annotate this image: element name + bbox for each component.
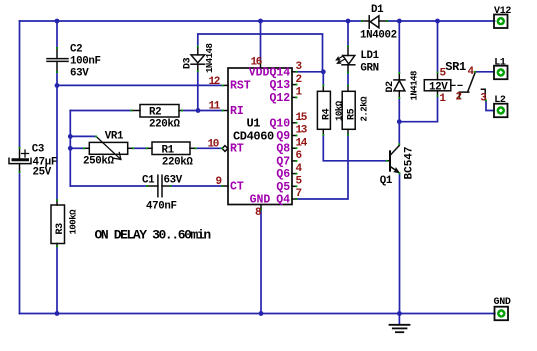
svg-text:Q13: Q13 [270, 79, 291, 92]
svg-text:ON DELAY 30..60min: ON DELAY 30..60min [95, 228, 212, 243]
svg-text:250kΩ: 250kΩ [83, 156, 115, 168]
svg-text:2: 2 [296, 74, 302, 86]
svg-text:L1: L1 [494, 58, 506, 69]
svg-text:U1: U1 [247, 117, 261, 131]
svg-text:C2: C2 [70, 43, 82, 55]
svg-text:Q8: Q8 [276, 143, 290, 156]
svg-text:9: 9 [216, 176, 222, 188]
svg-text:2: 2 [456, 92, 462, 104]
svg-text:Q1: Q1 [380, 175, 393, 187]
svg-text:CD4060: CD4060 [233, 130, 274, 144]
svg-text:470nF: 470nF [146, 201, 177, 213]
svg-text:Q12: Q12 [270, 92, 291, 105]
svg-text:R2: R2 [149, 107, 161, 119]
svg-text:63V: 63V [70, 68, 89, 80]
svg-text:R3: R3 [55, 223, 66, 235]
svg-text:V12: V12 [494, 6, 511, 17]
svg-text:7: 7 [296, 188, 302, 200]
svg-text:25V: 25V [33, 167, 52, 179]
svg-text:VR1: VR1 [105, 131, 124, 143]
svg-text:1N4148: 1N4148 [205, 43, 215, 73]
svg-text:13: 13 [296, 125, 308, 137]
svg-text:15: 15 [296, 112, 308, 124]
svg-text:220kΩ: 220kΩ [149, 119, 181, 131]
svg-text:10: 10 [208, 139, 219, 151]
svg-text:220kΩ: 220kΩ [162, 156, 194, 168]
svg-text:10kΩ: 10kΩ [335, 100, 345, 121]
svg-text:2.2kΩ: 2.2kΩ [360, 96, 370, 122]
svg-text:R5: R5 [347, 108, 358, 120]
svg-text:11: 11 [209, 101, 221, 113]
svg-text:16: 16 [251, 57, 262, 69]
svg-text:C3: C3 [32, 143, 44, 155]
svg-text:14: 14 [296, 137, 308, 149]
svg-text:SR1: SR1 [445, 60, 466, 74]
svg-text:D3: D3 [183, 57, 194, 69]
svg-text:GRN: GRN [360, 63, 378, 75]
svg-text:12V: 12V [429, 81, 448, 93]
svg-text:GND: GND [250, 194, 271, 207]
svg-text:RST: RST [230, 79, 251, 92]
svg-text:CT: CT [230, 180, 244, 193]
svg-text:RI: RI [230, 105, 244, 118]
svg-text:RT: RT [230, 143, 244, 156]
svg-text:BC547: BC547 [404, 146, 416, 179]
svg-text:100nF: 100nF [70, 56, 101, 68]
svg-text:12: 12 [209, 76, 220, 88]
svg-text:L2: L2 [494, 95, 506, 106]
svg-text:Q10: Q10 [270, 117, 291, 130]
svg-text:GND: GND [494, 297, 511, 308]
svg-text:100kΩ: 100kΩ [69, 209, 79, 235]
svg-text:C1: C1 [142, 175, 155, 187]
svg-text:63V: 63V [164, 175, 183, 187]
svg-text:R4: R4 [322, 108, 333, 120]
svg-text:D1: D1 [371, 4, 384, 16]
svg-text:Q14: Q14 [270, 66, 291, 79]
svg-text:Q7: Q7 [276, 155, 290, 168]
svg-text:Q5: Q5 [276, 181, 290, 194]
svg-text:Q4: Q4 [276, 194, 290, 207]
svg-text:LD1: LD1 [360, 50, 379, 62]
svg-text:Q6: Q6 [276, 168, 290, 181]
svg-text:6: 6 [296, 150, 302, 162]
svg-text:1N4148: 1N4148 [410, 71, 420, 101]
svg-text:Q9: Q9 [276, 130, 290, 143]
svg-text:D2: D2 [385, 81, 396, 93]
svg-text:1N4002: 1N4002 [360, 30, 397, 42]
svg-text:R1: R1 [162, 144, 175, 156]
